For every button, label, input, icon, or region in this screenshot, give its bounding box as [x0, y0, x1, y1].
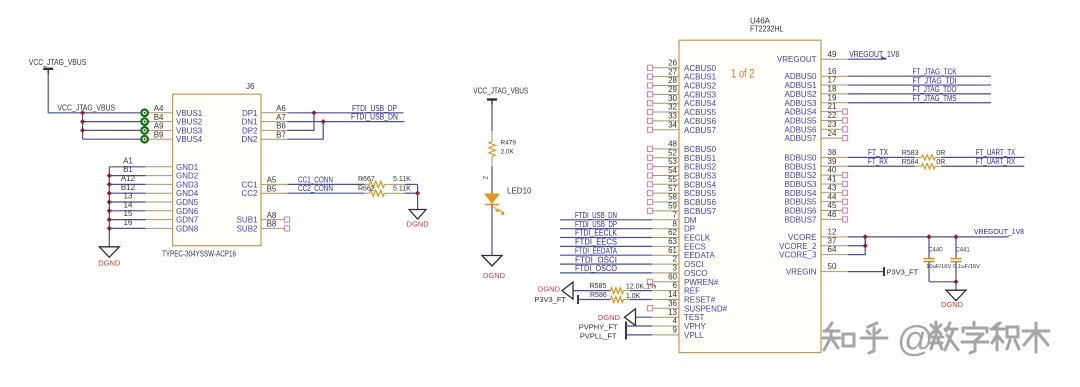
- wire GND bus to pin 13: [109, 201, 145, 203]
- pin B7 DN2 of J6: [261, 138, 288, 140]
- svg-text:23: 23: [828, 120, 837, 129]
- svg-text:BDBUS4: BDBUS4: [784, 189, 817, 198]
- svg-text:ACBUS0: ACBUS0: [684, 64, 717, 73]
- svg-text:B5: B5: [267, 184, 277, 193]
- wire DGND arrow to pin 13: [636, 316, 653, 318]
- svg-text:8: 8: [673, 219, 678, 228]
- junction VBUS bus at A9 row: [80, 128, 85, 133]
- no-connect marker pin 58: [647, 199, 652, 204]
- no-connect marker pin 59: [647, 208, 652, 213]
- svg-text:18: 18: [828, 85, 837, 94]
- pin 26 ACBUS0 of U46A: [652, 67, 679, 69]
- svg-text:34: 34: [668, 120, 677, 129]
- svg-text:27: 27: [668, 67, 677, 76]
- svg-text:P3V3_FT: P3V3_FT: [887, 268, 919, 277]
- svg-text:A1: A1: [123, 156, 133, 165]
- svg-text:22: 22: [828, 111, 837, 120]
- svg-text:50: 50: [828, 262, 837, 271]
- wire VREGOUT to net label: [848, 58, 881, 60]
- svg-text:TEST: TEST: [684, 313, 705, 322]
- svg-text:VREGOUT: VREGOUT: [777, 55, 817, 64]
- svg-text:29: 29: [668, 85, 677, 94]
- svg-text:37: 37: [828, 236, 837, 245]
- svg-text:FT2232HL: FT2232HL: [750, 25, 784, 34]
- svg-text:FT_JTAG_TDI: FT_JTAG_TDI: [913, 76, 957, 85]
- junction GND bus row A12: [107, 182, 112, 187]
- svg-text:VREGOUT_1V8: VREGOUT_1V8: [849, 50, 899, 59]
- svg-text:BDBUS2: BDBUS2: [784, 171, 817, 180]
- pin 12 VCORE of U46A: [821, 236, 848, 238]
- svg-text:26: 26: [668, 58, 677, 67]
- svg-text:24: 24: [828, 129, 837, 138]
- junction GND bus row 13: [107, 199, 112, 204]
- pin 55 BCBUS4 of U46A: [652, 183, 679, 185]
- no-connect marker BDBUS5: [842, 199, 847, 204]
- wire GND vertical bus: [108, 167, 110, 247]
- svg-text:FTDI_EECS: FTDI_EECS: [575, 238, 617, 247]
- svg-text:5.11K: 5.11K: [393, 185, 411, 192]
- svg-text:17: 17: [828, 76, 837, 85]
- svg-text:R586: R586: [590, 292, 607, 299]
- svg-text:36: 36: [668, 299, 677, 308]
- svg-text:DN2: DN2: [241, 135, 258, 144]
- svg-text:FTDI_USB_DP: FTDI_USB_DP: [352, 104, 397, 113]
- port PVPHY_FT tick: [625, 322, 627, 331]
- svg-text:EECS: EECS: [684, 242, 706, 251]
- pin A4 VBUS1 of J6: [148, 112, 172, 114]
- svg-text:FTDI_EECLK: FTDI_EECLK: [575, 229, 618, 238]
- svg-text:14: 14: [668, 290, 677, 299]
- svg-text:63: 63: [668, 237, 677, 246]
- svg-text:ACBUS5: ACBUS5: [684, 108, 717, 117]
- wire FT_RX from pin: [848, 165, 915, 167]
- wire GND bus to pin 14: [109, 210, 145, 212]
- svg-text:DP1: DP1: [242, 109, 258, 118]
- port PVPLL_FT tick: [625, 330, 627, 339]
- svg-text:BCBUS7: BCBUS7: [684, 207, 717, 216]
- svg-text:LED10: LED10: [507, 187, 532, 196]
- wire GND bus to pin A12: [109, 183, 145, 185]
- svg-text:2: 2: [673, 255, 678, 264]
- no-connect marker BDBUS4: [842, 190, 847, 195]
- svg-text:A12: A12: [121, 174, 136, 183]
- pin 40 BDBUS2 of U46A: [821, 174, 842, 176]
- wire GND bus to pin 15: [109, 219, 145, 221]
- svg-text:A9: A9: [154, 122, 164, 131]
- svg-text:P3V3_FT: P3V3_FT: [534, 295, 566, 304]
- svg-text:4: 4: [673, 317, 678, 326]
- svg-text:BCBUS6: BCBUS6: [684, 198, 717, 207]
- svg-text:BCBUS5: BCBUS5: [684, 189, 717, 198]
- svg-text:FT_TX: FT_TX: [868, 148, 889, 157]
- pin 58 BCBUS6 of U46A: [652, 201, 679, 203]
- wire FTDI_USB_DP from DP1: [288, 112, 404, 114]
- svg-text:B4: B4: [154, 113, 164, 122]
- svg-text:54: 54: [668, 166, 677, 175]
- svg-text:VREGOUT_1V8: VREGOUT_1V8: [974, 227, 1024, 236]
- svg-text:0R: 0R: [936, 150, 945, 157]
- svg-text:ACBUS1: ACBUS1: [684, 73, 717, 82]
- IC U46A body: [679, 40, 821, 352]
- resistor R662 5.11K: [370, 190, 385, 196]
- svg-text:FT_JTAG_TCK: FT_JTAG_TCK: [913, 67, 958, 76]
- pin 54 BCBUS3 of U46A: [652, 174, 679, 176]
- wire FTDI_OSCO to pin 3: [560, 272, 652, 274]
- pin 8 DP of U46A: [652, 228, 679, 230]
- pin 64 VCORE_3 of U46A: [821, 254, 848, 256]
- no-connect marker pin 29: [647, 92, 652, 97]
- pin 2 OSCI of U46A: [652, 263, 679, 265]
- svg-text:55: 55: [668, 175, 677, 184]
- pin 9 VPLL of U46A: [652, 334, 679, 336]
- wire VBUS vertical bus: [82, 113, 84, 139]
- svg-text:16: 16: [828, 67, 837, 76]
- svg-text:ACBUS6: ACBUS6: [684, 117, 717, 126]
- svg-text:GND2: GND2: [176, 172, 199, 181]
- svg-text:VREGIN: VREGIN: [786, 268, 817, 277]
- pin 3 OSCO of U46A: [652, 272, 679, 274]
- wire PVPHY_FT to pin 4: [626, 325, 652, 327]
- wire CC termination down to DGND: [417, 184, 419, 209]
- svg-text:FT_JTAG_TDO: FT_JTAG_TDO: [913, 85, 957, 94]
- resistor R585 12.0K,1%: [610, 288, 623, 294]
- wire R585 to pin 6: [630, 290, 652, 292]
- pin 33 ACBUS6 of U46A: [652, 120, 679, 122]
- svg-text:13: 13: [668, 308, 677, 317]
- pin 53 BCBUS2 of U46A: [652, 166, 679, 168]
- svg-text:BCBUS0: BCBUS0: [684, 145, 717, 154]
- svg-text:TYPEC-304YSSW-ACP16: TYPEC-304YSSW-ACP16: [162, 250, 236, 259]
- junction GND bus row B1: [107, 173, 112, 178]
- svg-text:45: 45: [828, 201, 837, 210]
- svg-text:38: 38: [828, 148, 837, 157]
- svg-text:12: 12: [828, 228, 837, 237]
- svg-text:0R: 0R: [936, 159, 945, 166]
- no-connect marker pin 54: [647, 173, 652, 178]
- wire GND bus to pin A1: [109, 166, 145, 168]
- svg-text:BDBUS7: BDBUS7: [784, 215, 817, 224]
- svg-text:PWREN#: PWREN#: [684, 278, 719, 287]
- wire capacitor bottoms join: [929, 281, 956, 283]
- junction VBUS bus at B4 row: [80, 119, 85, 124]
- svg-text:VPLL: VPLL: [684, 331, 704, 340]
- junction VCORE / VCORE_2-3: [863, 234, 868, 239]
- pin 45 BDBUS6 of U46A: [821, 210, 842, 212]
- wire FTDI_EECLK to pin 62: [560, 237, 652, 239]
- svg-text:SUB2: SUB2: [237, 224, 258, 233]
- svg-text:B7: B7: [276, 130, 286, 139]
- wire CC2 to resistor R662: [288, 192, 365, 194]
- LED LED10: [485, 194, 499, 203]
- svg-text:FT_UART_TX: FT_UART_TX: [976, 148, 1016, 157]
- wire FT_JTAG_TMS: [848, 102, 991, 104]
- power port DGND arrow (REF): [562, 282, 573, 299]
- junction VCORE / C441: [953, 234, 958, 239]
- svg-text:R585: R585: [590, 283, 607, 290]
- wire DN2 up to FTDI_USB_DN: [288, 122, 324, 140]
- no-connect marker ADBUS4: [842, 109, 847, 114]
- no-connect marker pin 52: [647, 155, 652, 160]
- pin B5 CC2 of J6: [261, 192, 288, 194]
- no-connect marker pin 28: [647, 83, 652, 88]
- svg-text:VCC_JTAG_VBUS: VCC_JTAG_VBUS: [473, 87, 528, 96]
- svg-text:FTDI_EEDATA: FTDI_EEDATA: [575, 246, 618, 255]
- pin B1 GND2 of J6: [146, 175, 173, 177]
- ground DGND (CC termination): [409, 210, 426, 220]
- no-connect marker BDBUS7: [842, 217, 847, 222]
- pin 23 ADBUS6 of U46A: [821, 128, 842, 130]
- pin 28 ACBUS2 of U46A: [652, 85, 679, 87]
- pin 14 GDN6 of J6: [146, 210, 173, 212]
- svg-text:R479: R479: [501, 139, 517, 146]
- wire VREGIN to P3V3_FT: [848, 271, 884, 273]
- svg-text:B1: B1: [123, 165, 133, 174]
- svg-text:DM: DM: [684, 216, 697, 225]
- pin A8 SUB1 of J6 (no connect): [261, 219, 284, 221]
- svg-text:J6: J6: [246, 82, 255, 91]
- pin 49 VREGOUT of U46A: [821, 58, 848, 60]
- svg-text:6: 6: [673, 281, 678, 290]
- pin 44 BDBUS5 of U46A: [821, 201, 842, 203]
- port P3V3_FT tick: [577, 295, 579, 304]
- no-connect marker ADBUS5: [842, 118, 847, 123]
- svg-text:PVPLL_FT: PVPLL_FT: [580, 331, 617, 340]
- pin 38 BDBUS0 of U46A: [821, 156, 848, 158]
- pin 18 ADBUS2 of U46A: [821, 93, 848, 95]
- resistor R479 2.0K: [491, 131, 493, 142]
- svg-text:DN1: DN1: [241, 118, 258, 127]
- no-connect marker pin 33: [647, 118, 652, 123]
- pin 34 ACBUS7 of U46A: [652, 129, 679, 131]
- svg-text:59: 59: [668, 201, 677, 210]
- wire FTDI_EECS to pin 63: [560, 245, 652, 247]
- pin 30 ACBUS4 of U46A: [652, 102, 679, 104]
- wire to pin B4: [83, 121, 142, 123]
- wire FTDI_EEDATA to pin 61: [560, 254, 652, 256]
- svg-text:SUB1: SUB1: [237, 216, 258, 225]
- svg-text:PVPHY_FT: PVPHY_FT: [579, 323, 618, 332]
- svg-text:46: 46: [828, 210, 837, 219]
- pin B4 VBUS2 of J6: [148, 121, 172, 123]
- svg-text:FTDI_USB_DN: FTDI_USB_DN: [575, 211, 617, 220]
- no-connect marker BDBUS2: [842, 173, 847, 178]
- svg-text:62: 62: [668, 228, 677, 237]
- svg-text:BDBUS1: BDBUS1: [784, 162, 817, 171]
- wire FT_JTAG_TCK: [848, 75, 991, 77]
- power port DGND arrow (TEST): [625, 309, 636, 326]
- svg-text:ADBUS4: ADBUS4: [784, 108, 817, 117]
- svg-text:2.0K: 2.0K: [501, 149, 515, 156]
- svg-text:B9: B9: [154, 130, 164, 139]
- pin 13 TEST of U46A: [652, 316, 679, 318]
- svg-text:FTDI_OSCO: FTDI_OSCO: [575, 264, 617, 273]
- svg-text:EEDATA: EEDATA: [684, 251, 715, 260]
- pin B12 GND4 of J6: [146, 192, 173, 194]
- wire VCORE net to VREGOUT_1V8: [848, 236, 1009, 238]
- pin 46 BDBUS7 of U46A: [821, 218, 842, 220]
- svg-text:C441: C441: [955, 248, 970, 254]
- wire GND bus to pin 16: [109, 227, 145, 229]
- svg-text:33: 33: [668, 112, 677, 121]
- svg-text:B8: B8: [267, 220, 277, 229]
- svg-text:GND4: GND4: [176, 189, 199, 198]
- svg-text:C440: C440: [928, 248, 943, 254]
- wire resistor R479 to LED10 anode: [491, 167, 493, 195]
- svg-text:VCORE_3: VCORE_3: [779, 251, 817, 260]
- svg-text:9: 9: [673, 326, 678, 335]
- svg-text:SUSPEND#: SUSPEND#: [684, 304, 728, 313]
- pin 15 GDN7 of J6: [146, 219, 173, 221]
- no-connect marker BDBUS6: [842, 208, 847, 213]
- svg-text:DGND: DGND: [598, 313, 621, 322]
- junction GND bus row 16: [107, 226, 112, 231]
- pin 39 BDBUS1 of U46A: [821, 165, 848, 167]
- wire FTDI_USB_DP to pin 8: [560, 228, 652, 230]
- svg-text:44: 44: [828, 192, 837, 201]
- pin 32 ACBUS5 of U46A: [652, 111, 679, 113]
- no-connect marker pin 60: [647, 279, 652, 284]
- no-connect marker pin 48: [647, 146, 652, 151]
- svg-text:FTDI_USB_DN: FTDI_USB_DN: [351, 113, 398, 122]
- svg-text:52: 52: [668, 148, 677, 157]
- pin 62 EECLK of U46A: [652, 237, 679, 239]
- svg-text:15: 15: [124, 209, 133, 218]
- svg-text:BCBUS1: BCBUS1: [684, 154, 717, 163]
- svg-text:VBUS3: VBUS3: [176, 126, 203, 135]
- pin A12 GND3 of J6: [146, 183, 173, 185]
- connector J6 body: [173, 94, 261, 246]
- pin 22 ADBUS5 of U46A: [821, 119, 842, 121]
- no-connect marker pin 57: [647, 191, 652, 196]
- svg-text:19: 19: [828, 93, 837, 102]
- pin 59 BCBUS7 of U46A: [652, 210, 679, 212]
- capacitor C440 10uF/16V: [928, 237, 930, 259]
- pin 19 ADBUS3 of U46A: [821, 102, 848, 104]
- wire PVPLL_FT to pin 9: [626, 334, 652, 336]
- no-connect marker pin 53: [647, 164, 652, 169]
- port P3V3_FT tick (VREGIN): [883, 267, 885, 276]
- svg-text:BDBUS5: BDBUS5: [784, 198, 817, 207]
- junction FTDI_USB_DN / DN2: [321, 119, 326, 124]
- svg-text:ACBUS4: ACBUS4: [684, 99, 717, 108]
- svg-text:VPHY: VPHY: [684, 322, 706, 331]
- junction VCORE / C440: [926, 234, 931, 239]
- svg-text:R583: R583: [902, 150, 919, 157]
- pin 50 VREGIN of U46A: [821, 271, 848, 273]
- svg-text:A5: A5: [267, 176, 277, 185]
- pin 16 GDN8 of J6: [146, 227, 173, 229]
- svg-text:ADBUS0: ADBUS0: [784, 72, 817, 81]
- svg-text:FTDI_OSCI: FTDI_OSCI: [575, 255, 617, 264]
- svg-text:53: 53: [668, 157, 677, 166]
- pin 7 DM of U46A: [652, 219, 679, 221]
- svg-text:GDN8: GDN8: [176, 224, 199, 233]
- watermark Zhihu @shuzijimu: [823, 323, 887, 353]
- svg-text:ADBUS6: ADBUS6: [784, 125, 817, 134]
- svg-text:B12: B12: [121, 183, 136, 192]
- svg-text:41: 41: [828, 175, 837, 184]
- svg-text:2: 2: [483, 176, 490, 180]
- wire to pin B9: [83, 138, 142, 140]
- svg-text:VBUS4: VBUS4: [176, 135, 203, 144]
- no-connect marker ADBUS7: [842, 136, 847, 141]
- svg-text:BDBUS0: BDBUS0: [784, 153, 817, 162]
- svg-text:DGND: DGND: [407, 220, 430, 229]
- wire GND bus to pin B12: [109, 192, 145, 194]
- svg-text:FT_JTAG_TMS: FT_JTAG_TMS: [913, 94, 957, 103]
- svg-text:BCBUS3: BCBUS3: [684, 171, 717, 180]
- svg-text:32: 32: [668, 103, 677, 112]
- pin 57 BCBUS5 of U46A: [652, 192, 679, 194]
- capacitor C441 0.1uF/16V: [955, 237, 957, 259]
- svg-text:GND1: GND1: [176, 163, 199, 172]
- wire FT_UART_TX: [942, 156, 1025, 158]
- svg-text:BDBUS3: BDBUS3: [784, 180, 817, 189]
- svg-text:A4: A4: [154, 104, 164, 113]
- svg-text:0.1uF/16V: 0.1uF/16V: [953, 264, 980, 270]
- pin 24 ADBUS7 of U46A: [821, 137, 842, 139]
- svg-text:A7: A7: [276, 113, 286, 122]
- svg-text:R584: R584: [902, 159, 919, 166]
- junction VCORE_2 / VCORE_3: [863, 243, 868, 248]
- no-connect marker BDBUS3: [842, 181, 847, 186]
- pin A7 DN1 of J6: [261, 121, 288, 123]
- svg-text:VCORE: VCORE: [788, 233, 816, 242]
- svg-text:ADBUS5: ADBUS5: [784, 116, 817, 125]
- wire DP2 up to FTDI_USB_DP: [288, 113, 315, 131]
- wire FTDI_OSCI to pin 2: [560, 263, 652, 265]
- svg-text:RESET#: RESET#: [684, 296, 716, 305]
- svg-text:BCBUS4: BCBUS4: [684, 180, 717, 189]
- no-connect marker pin 55: [647, 182, 652, 187]
- wire VCC_JTAG_VBUS to resistor R479: [491, 104, 493, 131]
- svg-text:DGND: DGND: [538, 284, 561, 293]
- svg-text:49: 49: [828, 50, 837, 59]
- pin A5 CC1 of J6: [261, 183, 288, 185]
- no-connect marker pin 36: [647, 306, 652, 311]
- svg-text:48: 48: [668, 140, 677, 149]
- wire R586 to pin 14: [630, 299, 652, 301]
- pin 16 ADBUS0 of U46A: [821, 75, 848, 77]
- pin 13 GDN5 of J6: [146, 201, 173, 203]
- svg-text:DGND: DGND: [98, 259, 121, 268]
- ground DGND (J6 GND bus): [99, 247, 119, 257]
- svg-text:3: 3: [673, 264, 678, 273]
- pin 63 EECS of U46A: [652, 245, 679, 247]
- svg-text:ACBUS7: ACBUS7: [684, 126, 717, 135]
- svg-text:DGND: DGND: [941, 300, 964, 309]
- svg-text:58: 58: [668, 193, 677, 202]
- pin 21 ADBUS4 of U46A: [821, 111, 842, 113]
- wire FTDI_USB_DN to pin 7: [560, 219, 652, 221]
- svg-text:1 of 2: 1 of 2: [731, 69, 755, 81]
- no-connect marker pin 26: [647, 65, 652, 70]
- junction FTDI_USB_DP / DP2: [311, 110, 316, 115]
- svg-text:DGND: DGND: [483, 271, 506, 280]
- wire R667 to ground node: [385, 183, 406, 185]
- svg-text:BDBUS6: BDBUS6: [784, 207, 817, 216]
- svg-text:CC2_CONN: CC2_CONN: [298, 184, 333, 193]
- svg-text:FTDI_USB_DP: FTDI_USB_DP: [575, 220, 617, 229]
- svg-text:VCC_JTAG_VBUS: VCC_JTAG_VBUS: [29, 58, 87, 67]
- svg-text:EECLK: EECLK: [684, 234, 711, 243]
- wire FT_JTAG_TDO: [848, 93, 991, 95]
- wire to pin A9: [83, 129, 142, 131]
- svg-text:43: 43: [828, 183, 837, 192]
- junction VBUS bus at A4 row: [80, 110, 85, 115]
- junction GND bus row B12: [107, 191, 112, 196]
- no-connect marker pin 30: [647, 101, 652, 106]
